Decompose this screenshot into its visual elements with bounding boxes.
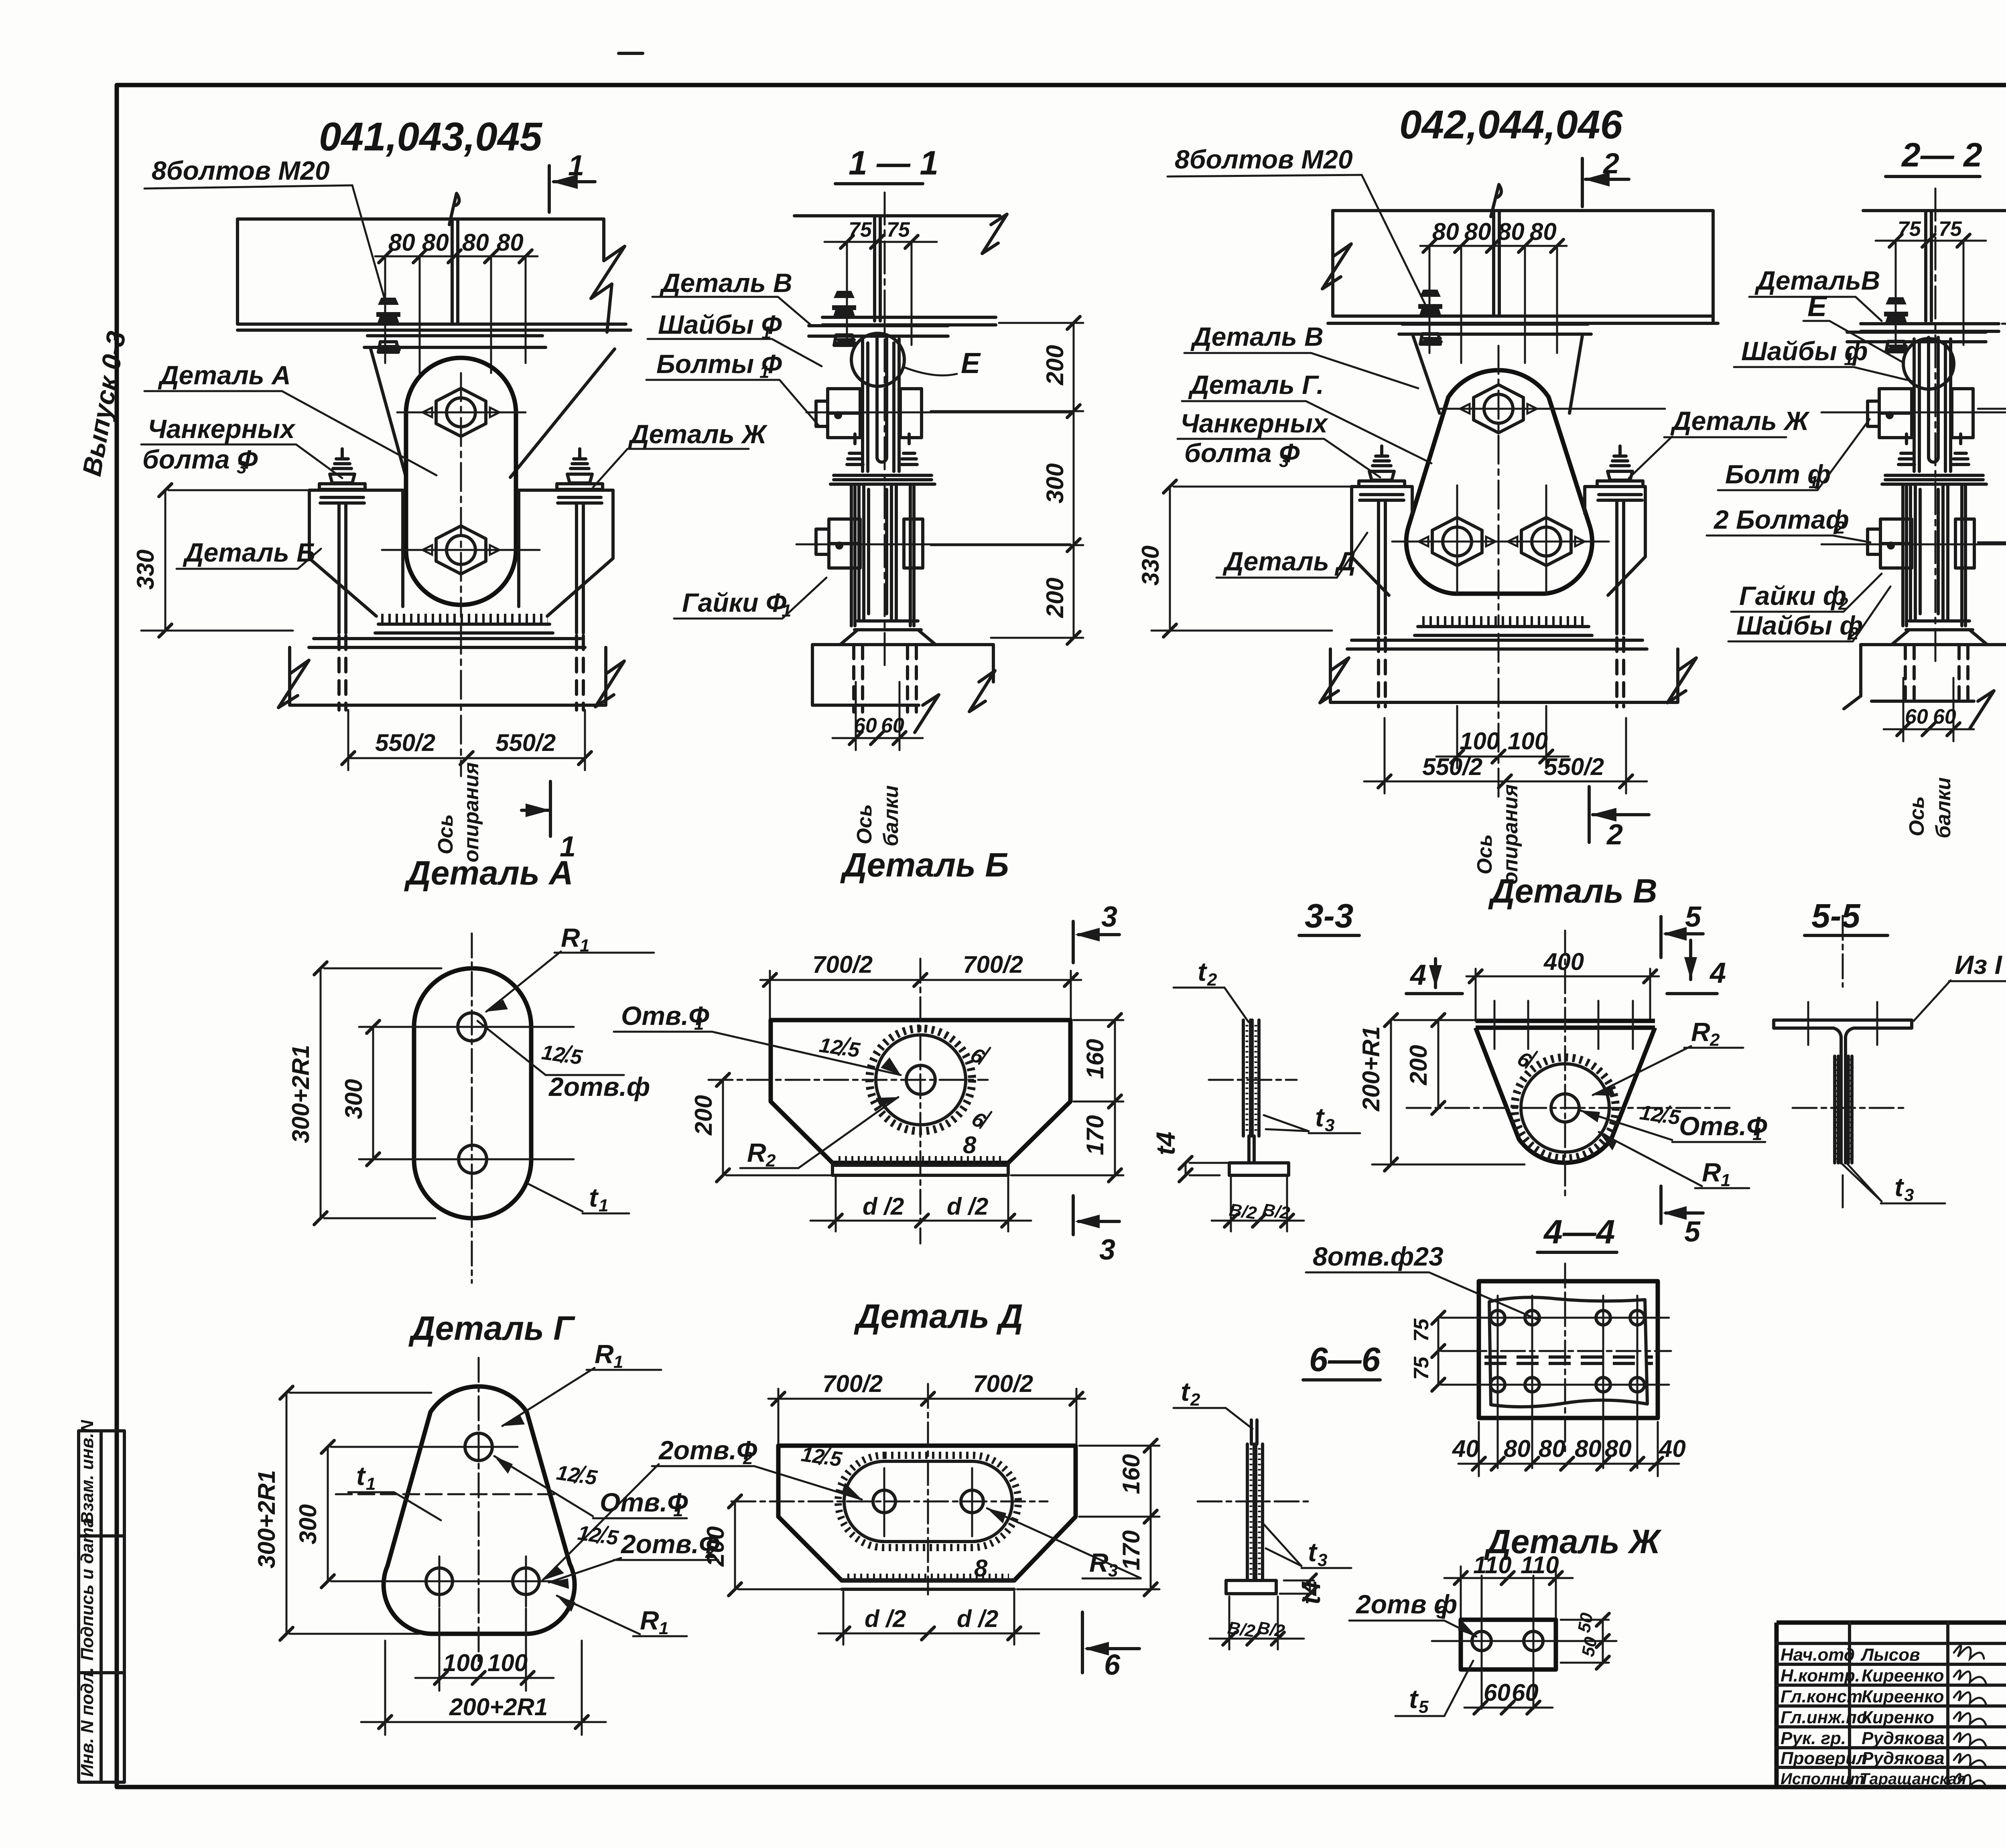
svg-text:опирания: опирания bbox=[460, 762, 483, 862]
svg-text:100: 100 bbox=[1460, 728, 1500, 755]
section mark 5 (top) bbox=[1661, 917, 1703, 957]
svg-text:3-3: 3-3 bbox=[1305, 897, 1353, 935]
svg-text:t4: t4 bbox=[1151, 1132, 1180, 1155]
beam axis vertical (2-2) bbox=[1935, 189, 1937, 666]
svg-text:8: 8 bbox=[974, 1555, 988, 1582]
svg-text:50: 50 bbox=[1574, 1611, 1597, 1634]
svg-text:Гайки Ф: Гайки Ф bbox=[682, 588, 787, 617]
centerlines (Деталь Б) bbox=[709, 1079, 988, 1081]
svg-text:80: 80 bbox=[388, 229, 415, 256]
base of section bbox=[840, 621, 936, 645]
hole left (Д) bbox=[873, 1490, 895, 1513]
svg-text:80: 80 bbox=[1539, 1435, 1565, 1462]
svg-text:опирания: опирания bbox=[1499, 784, 1522, 884]
svg-text:d /2: d /2 bbox=[947, 1193, 988, 1220]
svg-text:110: 110 bbox=[1473, 1552, 1512, 1578]
svg-text:80: 80 bbox=[422, 229, 449, 256]
foundation break marks bbox=[278, 660, 624, 708]
web stem (3-3) bbox=[1249, 1136, 1254, 1163]
pin centerlines bbox=[382, 412, 540, 550]
centerlines (Ж) bbox=[1432, 1576, 1616, 1709]
svg-text:160: 160 bbox=[1118, 1454, 1145, 1494]
svg-text:2: 2 bbox=[1602, 148, 1619, 180]
centerlines detail A bbox=[471, 933, 473, 1283]
centerlines (Деталь В) bbox=[1564, 931, 1566, 1197]
svg-text:700/2: 700/2 bbox=[812, 951, 873, 978]
svg-text:3: 3 bbox=[1904, 1185, 1914, 1205]
svg-text:2: 2 bbox=[1835, 518, 1845, 538]
svg-text:60: 60 bbox=[1512, 1679, 1539, 1706]
svg-text:R: R bbox=[747, 1138, 766, 1167]
svg-text:3: 3 bbox=[1279, 451, 1289, 471]
base strip (Деталь Б) bbox=[832, 1163, 1008, 1175]
dimension 100 100 (Г) bbox=[415, 1609, 554, 1691]
svg-text:Ось: Ось bbox=[1905, 796, 1929, 836]
svg-text:B/2: B/2 bbox=[1256, 1618, 1286, 1641]
circle E mark bbox=[851, 333, 904, 386]
inner wavy contour (4-4) bbox=[1489, 1297, 1647, 1407]
base of section (2-2) bbox=[1892, 621, 1987, 645]
svg-text:Лысов: Лысов bbox=[1860, 1645, 1920, 1665]
tee flange (5-5) bbox=[1774, 1020, 1912, 1037]
plate Деталь Г outline bbox=[384, 1386, 575, 1634]
dimension 550/2 550/2 bbox=[348, 710, 585, 770]
dimension 40 80 80 80 80 40 (4-4) bbox=[1458, 1422, 1679, 1476]
svg-text:t: t bbox=[589, 1183, 599, 1212]
legs bbox=[851, 484, 914, 626]
dimension 550/2 550/2 (view 2) bbox=[1364, 718, 1647, 793]
svg-text:5: 5 bbox=[1684, 1216, 1701, 1248]
svg-text:1 — 1: 1 — 1 bbox=[849, 144, 938, 182]
svg-text:200: 200 bbox=[1042, 578, 1068, 618]
svg-text:200+R1: 200+R1 bbox=[1358, 1026, 1385, 1112]
weld serration on base bbox=[381, 614, 548, 623]
svg-text:d /2: d /2 bbox=[863, 1193, 904, 1220]
anchor bolt left (view 2) bbox=[1359, 446, 1405, 500]
svg-text:Деталь Г: Деталь Г bbox=[408, 1309, 575, 1347]
beam left break bbox=[1322, 244, 1351, 289]
svg-text:E: E bbox=[961, 347, 981, 379]
title block bbox=[1777, 1623, 2006, 1787]
svg-text:2отв.Ф: 2отв.Ф bbox=[658, 1435, 757, 1465]
section mark 3 (top) bbox=[1073, 921, 1119, 963]
svg-text:Деталь В: Деталь В bbox=[1190, 322, 1324, 351]
section mark 1 (bottom) bbox=[522, 781, 550, 836]
bolt row 1 nuts (2-2) bbox=[1868, 389, 1973, 438]
svg-text:80: 80 bbox=[1575, 1435, 1602, 1462]
beam axis vertical bbox=[884, 193, 886, 666]
anchor bolt right (view 2) bbox=[1597, 446, 1643, 500]
beam right break bbox=[591, 219, 625, 332]
svg-text:Рук. гр.: Рук. гр. bbox=[1781, 1728, 1846, 1748]
dimension 200 (Деталь Б) bbox=[723, 1080, 834, 1175]
holes 4-4 row 2 bbox=[1490, 1377, 1505, 1392]
dimension 60 60 (Ж) bbox=[1464, 1707, 1553, 1709]
svg-text:балки: балки bbox=[1932, 777, 1955, 838]
weld serration base (Деталь Б) bbox=[839, 1156, 1005, 1164]
svg-text:5-5: 5-5 bbox=[1811, 897, 1861, 935]
section mark 2 (bottom) bbox=[1589, 787, 1649, 842]
hole centerlines (4-4) bbox=[1468, 1296, 1669, 1468]
hidden flange dashed lines (4-4) bbox=[1484, 1357, 1653, 1363]
bolt M20 (section) bbox=[830, 291, 858, 345]
title block texts bbox=[1781, 1645, 1966, 1788]
dimension 50 50 (Ж) bbox=[1561, 1620, 1609, 1663]
plate Деталь В outline (tub) bbox=[1476, 1021, 1655, 1163]
svg-text:Исполнит: Исполнит bbox=[1781, 1770, 1864, 1788]
axis (4-4) bbox=[1564, 1264, 1566, 1452]
svg-text:t: t bbox=[1198, 957, 1208, 986]
bearing plate Деталь В (section) bbox=[809, 317, 996, 336]
dimension 80x4 on beam bbox=[375, 256, 538, 373]
svg-text:Деталь Б: Деталь Б bbox=[183, 538, 315, 567]
svg-text:3: 3 bbox=[1099, 1234, 1115, 1266]
dimension 60 60 bbox=[832, 682, 923, 750]
bearing plate под балкой bbox=[364, 336, 546, 347]
axis of support (view 2) bbox=[1498, 346, 1500, 626]
lower pin nut right bbox=[1508, 517, 1585, 566]
svg-text:75: 75 bbox=[1939, 217, 1962, 241]
svg-text:Деталь Ж: Деталь Ж bbox=[1670, 406, 1810, 436]
circle E mark (2-2) bbox=[1903, 339, 1954, 389]
svg-text:Подпись и дата: Подпись и дата bbox=[77, 1517, 97, 1661]
base plate (3-3) bbox=[1229, 1163, 1289, 1175]
vertical axis of support bbox=[460, 373, 462, 617]
name table columns bbox=[1850, 1623, 2006, 1787]
svg-text:2 Болтаф: 2 Болтаф bbox=[1713, 505, 1849, 534]
dimension 200 (Деталь В) bbox=[1437, 1020, 1440, 1108]
lower pin nut left bbox=[1419, 517, 1496, 566]
bearing plate (view 2) bbox=[1399, 324, 1591, 334]
bolt bundle upper (2-2) bbox=[1914, 339, 1951, 471]
svg-text:t: t bbox=[1181, 1377, 1191, 1406]
svg-text:Гл.инж.по: Гл.инж.по bbox=[1781, 1708, 1868, 1727]
svg-text:60: 60 bbox=[1933, 705, 1956, 728]
svg-text:Деталь Б: Деталь Б bbox=[840, 846, 1009, 884]
bolt bundle lower bbox=[859, 485, 896, 620]
dimension 400 bbox=[1466, 969, 1659, 1021]
label 2отв.ф + 12.5 bbox=[477, 1021, 624, 1075]
dashed anchor bolts in foundation (view 2) bbox=[1379, 638, 1624, 707]
beam flange (section 2-2) bbox=[1863, 211, 2006, 321]
svg-text:Рудякова: Рудякова bbox=[1862, 1749, 1945, 1768]
top center registration dash bbox=[619, 52, 643, 55]
serrated washer circle (Деталь В) bbox=[1515, 1057, 1616, 1158]
dimension 75 75 bbox=[824, 242, 937, 345]
svg-text:300: 300 bbox=[294, 1504, 321, 1544]
svg-text:R: R bbox=[1691, 1017, 1710, 1047]
svg-text:4: 4 bbox=[1709, 957, 1726, 989]
hole upper bbox=[458, 1013, 486, 1041]
dimension 300 (Г) bbox=[328, 1447, 463, 1581]
dimension 75 75 (4-4) bbox=[1438, 1318, 1492, 1385]
top stub (6-6) bbox=[1251, 1420, 1257, 1444]
bolt bundle upper bbox=[863, 339, 899, 471]
centerline (6-6) bbox=[1198, 1501, 1308, 1503]
centerlines (Д) bbox=[731, 1501, 1048, 1503]
svg-text:Киренко: Киренко bbox=[1862, 1708, 1934, 1727]
svg-text:Нач.отд: Нач.отд bbox=[1781, 1645, 1855, 1665]
svg-text:4: 4 bbox=[1409, 959, 1426, 991]
bolt bundle lower (2-2) bbox=[1911, 485, 1948, 620]
beam (crane girder) bbox=[238, 219, 631, 330]
svg-text:2: 2 bbox=[1606, 819, 1623, 851]
svg-text:200: 200 bbox=[702, 1526, 729, 1567]
dimension 80x4 (view 2) bbox=[1420, 246, 1567, 363]
svg-text:60: 60 bbox=[854, 714, 877, 737]
base strip (Д) bbox=[842, 1580, 1014, 1589]
svg-text:200+2R1: 200+2R1 bbox=[449, 1694, 548, 1720]
svg-text:Киреенко: Киреенко bbox=[1862, 1687, 1944, 1706]
dimension chain 200/300/200 (2-2) bbox=[1978, 324, 2006, 637]
svg-text:300: 300 bbox=[1042, 463, 1068, 503]
dimension 330 bbox=[141, 490, 311, 631]
weld serration base (Д) bbox=[847, 1574, 1009, 1582]
beam web top break squiggle bbox=[1491, 185, 1501, 217]
svg-text:80: 80 bbox=[1530, 218, 1557, 245]
svg-text:2отв.ф: 2отв.ф bbox=[548, 1072, 650, 1101]
svg-text:5: 5 bbox=[1419, 1697, 1429, 1717]
hole lower left (Г) bbox=[426, 1568, 453, 1594]
dimension 160/170 (Д) bbox=[1017, 1446, 1159, 1589]
svg-text:Деталь Г.: Деталь Г. bbox=[1188, 370, 1324, 400]
plate Деталь А (oval) bbox=[406, 358, 516, 605]
hole top (Г) bbox=[465, 1433, 492, 1461]
bolt M20 (view 2) bbox=[1417, 290, 1444, 344]
svg-text:6: 6 bbox=[1104, 1649, 1121, 1681]
svg-text:2— 2: 2— 2 bbox=[1901, 136, 1982, 174]
svg-text:8: 8 bbox=[963, 1132, 977, 1158]
svg-text:Чанкерных: Чанкерных bbox=[148, 414, 296, 444]
svg-text:Ось: Ось bbox=[853, 804, 876, 844]
plate bars (3-3) bbox=[1243, 1020, 1259, 1136]
svg-text:3: 3 bbox=[237, 458, 246, 477]
foundation block bbox=[290, 647, 606, 705]
svg-text:75: 75 bbox=[1410, 1356, 1433, 1380]
dimension 300+2R1 bbox=[321, 968, 441, 1218]
svg-text:Ось: Ось bbox=[434, 814, 457, 854]
svg-text:170: 170 bbox=[1118, 1530, 1145, 1570]
dimension 200 (Д) bbox=[735, 1501, 843, 1589]
bracket trapezoid Деталь В bbox=[371, 349, 615, 477]
centerline (3-3) bbox=[1209, 1079, 1297, 1081]
flange ticks (5-5) bbox=[1808, 1002, 1877, 1045]
tee web (5-5) bbox=[1841, 1037, 1846, 1163]
base strip (view 2) bbox=[1415, 627, 1592, 635]
svg-text:R: R bbox=[640, 1605, 659, 1635]
svg-text:Деталь А: Деталь А bbox=[158, 360, 291, 390]
bolt row 2 nuts (2-2) bbox=[1868, 519, 1974, 568]
dimension 300+2R1 (Г) bbox=[286, 1393, 431, 1634]
svg-text:Инв. N подл.: Инв. N подл. bbox=[77, 1667, 97, 1777]
svg-text:d /2: d /2 bbox=[865, 1605, 906, 1632]
svg-text:8отв.ф23: 8отв.ф23 bbox=[1313, 1241, 1444, 1271]
svg-text:40: 40 bbox=[1659, 1435, 1686, 1462]
svg-text:75: 75 bbox=[849, 218, 872, 241]
plate Ж outline bbox=[1461, 1620, 1556, 1669]
section mark 4 (right) bbox=[1667, 940, 1717, 994]
svg-text:550/2: 550/2 bbox=[1544, 753, 1604, 780]
side body right (Деталь Б) bbox=[519, 490, 613, 616]
centerlines (5-5) bbox=[1793, 916, 1906, 1108]
dimension 110 110 (Ж) bbox=[1444, 1566, 1573, 1623]
side body left (view 2) bbox=[1352, 487, 1412, 595]
svg-text:B/2: B/2 bbox=[1228, 1200, 1258, 1223]
legs (2-2) bbox=[1903, 484, 1965, 626]
svg-text:330: 330 bbox=[132, 550, 159, 590]
anchor bolt right bbox=[557, 449, 603, 503]
dimension B/2 B/2 (3-3) bbox=[1212, 1177, 1304, 1231]
svg-text:Рудякова: Рудякова bbox=[1862, 1728, 1945, 1748]
svg-text:80: 80 bbox=[1498, 218, 1525, 245]
svg-text:80: 80 bbox=[497, 229, 524, 256]
svg-text:E: E bbox=[1807, 290, 1827, 323]
upper pin nut bbox=[422, 388, 499, 436]
dimension d/2 d/2 (Деталь Б) bbox=[810, 1177, 1031, 1231]
left stamp boxes bbox=[79, 1431, 124, 1782]
plate Деталь Д outline bbox=[778, 1446, 1076, 1580]
dimension d/2 d/2 (Д) bbox=[818, 1592, 1039, 1645]
svg-text:Шайбы ф: Шайбы ф bbox=[1736, 611, 1863, 640]
foundation top bbox=[309, 639, 585, 647]
lower pin nut bbox=[422, 526, 499, 574]
dimension 100 100 (view 2) bbox=[1436, 706, 1569, 768]
svg-text:160: 160 bbox=[1082, 1039, 1109, 1079]
anchor bolts dashed in foundation bbox=[339, 636, 346, 710]
svg-text:700/2: 700/2 bbox=[973, 1370, 1033, 1397]
svg-text:Деталь Ж: Деталь Ж bbox=[628, 419, 768, 449]
svg-text:100: 100 bbox=[487, 1649, 528, 1676]
svg-text:2: 2 bbox=[1190, 1390, 1200, 1410]
centerlines (Г) bbox=[478, 1358, 480, 1669]
svg-text:t: t bbox=[1308, 1537, 1318, 1567]
svg-text:3: 3 bbox=[1436, 1603, 1446, 1622]
svg-text:5: 5 bbox=[1685, 901, 1701, 933]
svg-text:60: 60 bbox=[1484, 1679, 1511, 1706]
plate Деталь А outline bbox=[414, 968, 531, 1218]
section mark 1 (top) bbox=[549, 166, 595, 212]
washer plates row bbox=[830, 475, 935, 484]
svg-text:110: 110 bbox=[1521, 1552, 1559, 1578]
svg-text:Киреенко: Киреенко bbox=[1862, 1666, 1944, 1686]
foundation breaks (view 2) bbox=[1320, 658, 1696, 703]
svg-text:B/2: B/2 bbox=[1226, 1618, 1257, 1641]
section mark 3 (bottom) bbox=[1073, 1196, 1119, 1235]
svg-text:R: R bbox=[561, 923, 580, 952]
svg-text:75: 75 bbox=[887, 218, 910, 241]
bearing plate (section 2-2) bbox=[1847, 324, 1999, 342]
dimension 700/2 700/2 (Д) bbox=[768, 1389, 1085, 1448]
svg-text:Таращанская: Таращанская bbox=[1860, 1770, 1966, 1788]
hole right (Д) bbox=[961, 1490, 983, 1513]
svg-text:балки: балки bbox=[879, 785, 903, 846]
svg-text:4—4: 4—4 bbox=[1543, 1213, 1615, 1251]
svg-text:R: R bbox=[595, 1339, 614, 1369]
svg-text:100: 100 bbox=[1508, 728, 1548, 755]
hole (Деталь Б) bbox=[906, 1065, 935, 1094]
serrated washer circle (Деталь Б) bbox=[869, 1028, 972, 1131]
hole lower right (Г) bbox=[513, 1568, 539, 1594]
signatures scribbles bbox=[1954, 1645, 1986, 1787]
plate Деталь Г (pear shape) bbox=[1406, 370, 1592, 594]
dimension B/2 B/2 (6-6) bbox=[1210, 1596, 1304, 1649]
foundation (section 2-2) bbox=[1861, 645, 2006, 701]
foundation block (view 2) bbox=[1330, 649, 1678, 702]
beam break right bbox=[982, 214, 1007, 254]
svg-text:Проверил: Проверил bbox=[1781, 1749, 1867, 1768]
svg-text:300+2R1: 300+2R1 bbox=[287, 1045, 314, 1143]
svg-text:Ось: Ось bbox=[1473, 834, 1496, 874]
section mark 5 (bottom) bbox=[1661, 1186, 1703, 1223]
svg-text:1: 1 bbox=[366, 1474, 376, 1494]
washer plates row (2-2) bbox=[1882, 475, 1986, 484]
svg-text:6—6: 6—6 bbox=[1309, 1341, 1381, 1378]
svg-text:80: 80 bbox=[1504, 1435, 1531, 1462]
svg-text:75: 75 bbox=[1410, 1318, 1433, 1342]
hole (Деталь В) bbox=[1551, 1094, 1579, 1122]
svg-text:170: 170 bbox=[1082, 1115, 1109, 1155]
dimension chain 200/300/200 bbox=[931, 323, 1083, 638]
svg-text:550/2: 550/2 bbox=[1422, 753, 1482, 780]
hole left (Ж) bbox=[1472, 1631, 1491, 1651]
svg-text:60: 60 bbox=[881, 714, 904, 737]
svg-text:t: t bbox=[356, 1461, 366, 1491]
svg-text:8болтов М20: 8болтов М20 bbox=[152, 156, 330, 185]
plate 4-4 outline bbox=[1479, 1281, 1658, 1418]
dimension 700/2 700/2 (detail Б) bbox=[760, 971, 1081, 1027]
svg-text:3: 3 bbox=[1101, 901, 1117, 933]
name table rows bbox=[1777, 1643, 2006, 1767]
svg-text:40: 40 bbox=[1452, 1435, 1479, 1462]
weld ticks on top strip bbox=[1494, 1001, 1633, 1049]
svg-text:200: 200 bbox=[690, 1095, 717, 1136]
svg-text:50: 50 bbox=[1578, 1635, 1601, 1658]
dimension 330 (view 2) bbox=[1151, 487, 1350, 631]
svg-text:d /2: d /2 bbox=[957, 1605, 998, 1632]
svg-text:75: 75 bbox=[1898, 217, 1921, 241]
svg-text:550/2: 550/2 bbox=[495, 729, 556, 756]
anchor bolt left bbox=[319, 449, 365, 503]
plate Деталь Б outline bbox=[771, 1020, 1070, 1163]
svg-text:Деталь Д: Деталь Д bbox=[854, 1297, 1023, 1335]
svg-text:80: 80 bbox=[462, 229, 489, 256]
svg-text:330: 330 bbox=[1137, 546, 1164, 586]
svg-text:R: R bbox=[1702, 1157, 1721, 1187]
dimension 75 75 (2-2) bbox=[1876, 241, 1986, 345]
small bolts above washers bbox=[847, 434, 917, 465]
dimension 200+2R1 (Г) bbox=[361, 1641, 606, 1735]
bolt row 2 nuts bbox=[816, 519, 923, 568]
weld serration (view 2) bbox=[1422, 616, 1584, 626]
foundation (section) bbox=[812, 645, 993, 705]
small bolts above washers (2-2) bbox=[1898, 434, 1969, 465]
svg-text:60: 60 bbox=[1905, 705, 1928, 728]
svg-text:8болтов М20: 8болтов М20 bbox=[1175, 144, 1353, 174]
dimension 300 (detail A) bbox=[372, 1027, 374, 1159]
plate bars (6-6) bbox=[1247, 1444, 1263, 1580]
svg-text:1: 1 bbox=[568, 150, 584, 182]
svg-text:700/2: 700/2 bbox=[963, 951, 1023, 978]
base plate (6-6) bbox=[1226, 1580, 1276, 1594]
svg-text:80: 80 bbox=[1605, 1435, 1632, 1462]
svg-text:200: 200 bbox=[1042, 345, 1068, 385]
svg-text:300: 300 bbox=[340, 1079, 367, 1119]
svg-text:400: 400 bbox=[1543, 948, 1584, 975]
beam web top break squiggle bbox=[449, 193, 459, 225]
svg-text:Деталь А: Деталь А bbox=[404, 854, 573, 892]
svg-text:Гл.конст: Гл.конст bbox=[1781, 1687, 1862, 1706]
bolt M20 (section 2-2) bbox=[1882, 297, 1910, 352]
